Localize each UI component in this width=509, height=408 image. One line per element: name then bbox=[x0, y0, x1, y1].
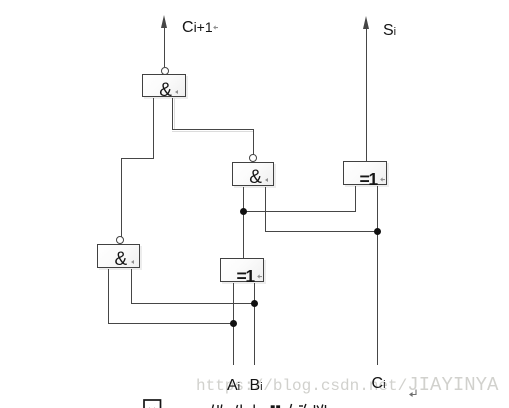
wire: G4 bottom-right down to Bi bbox=[254, 283, 255, 365]
wire: output arrow stem of top NAND to Ci+1 bbox=[164, 26, 165, 67]
wire: G1 right output down (with shadow) bbox=[172, 98, 173, 130]
inverter bubble of top NAND G1 bbox=[161, 67, 169, 75]
NAND gate G3 (lower-left) bbox=[97, 244, 140, 268]
wire: G5 bottom-left down bbox=[355, 186, 356, 212]
wire: horizontal to Ai line bbox=[108, 323, 234, 324]
wire: horizontal toward G3 bbox=[121, 158, 154, 159]
node label Ci+1 bbox=[182, 19, 213, 36]
wire: down into G3 bubble bbox=[121, 158, 122, 237]
wire: horizontal to Bi line bbox=[131, 303, 255, 304]
wire: G2 right output down bbox=[265, 187, 266, 232]
mark in G3 bbox=[131, 260, 134, 264]
wire: down into G2 bubble bbox=[253, 129, 254, 155]
symbol =1 of G4 bbox=[237, 268, 254, 286]
NAND gate G1 (top) bbox=[142, 74, 186, 97]
wire: G5 bottom-right long drop to Ci bbox=[377, 186, 378, 365]
junction dot D bbox=[230, 320, 237, 327]
wire: horizontal to Ci line bbox=[265, 231, 378, 232]
XOR gate G5 (right, =1) bbox=[343, 161, 387, 185]
wire: horizontal G5 to junction on G2-G4 line bbox=[243, 211, 356, 212]
symbol & of G3 bbox=[115, 251, 128, 269]
wire: G1 left output down bbox=[153, 98, 154, 159]
wire: output arrow stem of right XOR to Si bbox=[366, 27, 367, 162]
input label Ai bbox=[227, 378, 240, 395]
NAND gate G2 (middle) bbox=[232, 162, 274, 186]
mark after Ci+1 bbox=[213, 25, 218, 30]
wire: G3 left output down bbox=[108, 269, 109, 324]
junction dot B bbox=[374, 228, 381, 235]
watermark bbox=[196, 376, 498, 396]
mark in G2 bbox=[265, 178, 268, 182]
junction dot A bbox=[240, 208, 247, 215]
wire: G3 right output down bbox=[131, 269, 132, 304]
wire: G2 left output down to G4 bbox=[243, 187, 244, 259]
wire: G4 bottom-left down to Ai bbox=[233, 283, 234, 365]
junction dot C bbox=[251, 300, 258, 307]
mark in G4 bbox=[257, 274, 262, 279]
symbol =1 of G5 bbox=[360, 171, 377, 189]
return mark (line-break symbol) bbox=[408, 389, 419, 398]
XOR gate G4 (lower, =1) bbox=[220, 258, 264, 282]
symbol & of G1 bbox=[159, 82, 172, 100]
inverter bubble of middle NAND G2 bbox=[249, 154, 257, 162]
mark in G5 bbox=[380, 177, 385, 182]
inverter bubble of lower-left NAND G3 bbox=[116, 236, 124, 244]
input label Bi bbox=[250, 378, 263, 395]
symbol & of G2 bbox=[249, 169, 262, 187]
arrowhead Ci+1 bbox=[161, 15, 167, 28]
mark in G1 bbox=[175, 90, 178, 94]
input label Ci bbox=[372, 376, 386, 393]
caption fragment (cut off at bottom): 图 box bbox=[140, 396, 164, 408]
caption fragment: character stroke tops bbox=[205, 396, 335, 408]
wire: horizontal toward G2 bbox=[172, 129, 254, 130]
node label Si bbox=[383, 23, 396, 40]
arrowhead Si bbox=[363, 16, 369, 29]
